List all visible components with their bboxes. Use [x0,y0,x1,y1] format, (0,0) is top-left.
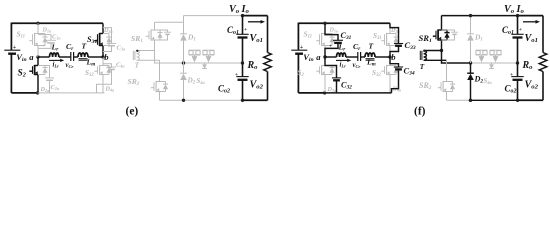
svg-text:T: T [82,42,87,51]
svg-text:D4a: D4a [105,86,115,93]
svg-text:C2a: C2a [51,84,60,91]
svg-text:T: T [135,61,140,69]
svg-text:+: + [244,27,247,33]
svg-text:D1a: D1a [42,27,52,34]
svg-text:C3a: C3a [117,45,126,52]
svg-text:(f): (f) [414,106,426,118]
svg-text:iLr: iLr [340,61,347,68]
svg-text:S4a: S4a [197,78,206,85]
svg-text:T: T [369,42,374,51]
svg-text:D2a: D2a [327,86,337,93]
svg-text:D1a: D1a [329,27,339,34]
svg-text:b: b [391,52,396,62]
svg-text:C1a: C1a [52,34,61,41]
svg-text:+: + [510,72,513,78]
svg-text:iLr: iLr [53,61,60,68]
svg-text:D2a: D2a [40,86,50,93]
svg-text:T: T [420,63,425,71]
svg-text:vCr: vCr [353,62,361,69]
svg-text:S4a: S4a [484,78,493,85]
svg-text:a: a [29,52,34,62]
svg-text:+: + [329,45,332,50]
svg-text:+: + [300,45,303,51]
svg-text:+: + [13,45,16,51]
svg-text:+: + [519,27,522,33]
svg-text:+: + [235,72,238,78]
svg-text:+: + [42,45,45,50]
svg-text:C4a: C4a [116,62,125,69]
svg-text:b: b [104,52,109,62]
svg-text:(e): (e) [126,106,139,118]
svg-text:a: a [316,52,321,62]
svg-text:vCr: vCr [66,62,74,69]
